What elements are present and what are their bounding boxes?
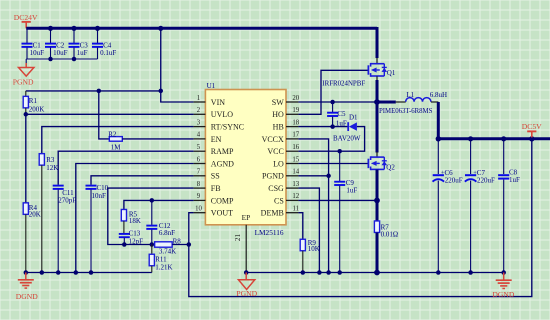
capacitor C6 220uF (433, 139, 463, 273)
wire PGND bus right (244, 270, 506, 276)
wire Q2 source to R7 (376, 170, 379, 221)
svg-text:10K: 10K (308, 245, 320, 253)
port DC5V (522, 122, 542, 137)
svg-text:UVLO: UVLO (211, 110, 233, 119)
svg-text:18K: 18K (129, 217, 141, 225)
svg-text:EN: EN (211, 135, 222, 144)
svg-text:12K: 12K (46, 164, 58, 172)
svg-text:SW: SW (272, 98, 284, 107)
svg-text:VIN: VIN (211, 98, 225, 107)
wire PGND pin (298, 175, 328, 177)
capacitor C8 1uF (498, 139, 520, 273)
wire HO to Q1 gate (298, 70, 368, 114)
svg-text:3: 3 (197, 119, 201, 126)
svg-text:21: 21 (233, 234, 242, 242)
svg-text:D1: D1 (349, 113, 358, 121)
port DC24V (14, 13, 38, 28)
wire D1 anode to VCC (298, 127, 364, 154)
svg-text:R2: R2 (108, 131, 117, 139)
svg-text:R1: R1 (29, 97, 38, 105)
node FB net junctions (122, 242, 154, 247)
pin 5 RAMP (194, 144, 234, 156)
svg-text:5: 5 (197, 144, 201, 151)
pin 20 SW (272, 95, 300, 107)
resistor R9 10K (300, 239, 320, 272)
svg-text:12: 12 (292, 193, 299, 200)
pin 1 VIN (194, 95, 226, 107)
wire CS (298, 198, 380, 204)
capacitor C2 (45, 28, 68, 59)
svg-text:SS: SS (211, 172, 220, 181)
svg-text:HO: HO (272, 110, 284, 119)
pin 19 HO (272, 107, 300, 119)
capacitor C1 (22, 28, 45, 59)
svg-text:Q1: Q1 (387, 69, 396, 77)
wire SS (91, 176, 194, 185)
wire EN pullup (99, 91, 109, 139)
svg-text:1M: 1M (111, 144, 122, 152)
pin 12 CS (274, 193, 300, 205)
svg-text:CSG: CSG (268, 184, 284, 193)
pin 15 LO (273, 156, 300, 168)
svg-text:220uF: 220uF (477, 177, 495, 185)
svg-text:VCC: VCC (267, 147, 283, 156)
svg-text:PGND: PGND (236, 289, 257, 298)
wire 5V output rail (436, 102, 550, 142)
pin 9 COMP (194, 193, 234, 205)
wire R1-R4 link (25, 114, 27, 203)
pin 3 RT/SYNC (194, 119, 245, 131)
svg-text:12pF: 12pF (129, 237, 144, 245)
svg-text:17: 17 (292, 132, 299, 139)
wire DEMB (298, 213, 302, 240)
wire RAMP (58, 151, 193, 185)
capacitor C12 6.8nF (146, 200, 175, 244)
capacitor C11 270pF (53, 185, 76, 273)
svg-text:10nF: 10nF (92, 192, 107, 200)
svg-text:18: 18 (292, 119, 299, 126)
svg-text:R3: R3 (46, 156, 55, 164)
svg-text:U1: U1 (207, 82, 216, 90)
capacitor C5 1uF (327, 102, 347, 127)
pin 18 HB (273, 119, 300, 131)
node 24V rail junctions (48, 26, 163, 31)
inductor L1 6.8uH (377, 91, 447, 115)
resistor R2 1M (108, 131, 122, 152)
svg-text:AGND: AGND (211, 159, 234, 168)
svg-text:20: 20 (292, 95, 299, 102)
pin 8 FB (194, 181, 221, 193)
wire FB (108, 188, 194, 244)
svg-text:7: 7 (197, 169, 201, 176)
svg-text:R11: R11 (155, 255, 167, 263)
resistor R11 1.21K (149, 245, 172, 273)
capacitor C3 (69, 28, 89, 59)
capacitor C4 (92, 28, 116, 59)
svg-text:PGND: PGND (262, 172, 284, 181)
svg-text:0.01Ω: 0.01Ω (381, 231, 398, 239)
svg-text:19: 19 (292, 107, 299, 114)
svg-text:6: 6 (197, 156, 201, 163)
svg-text:1uF: 1uF (509, 176, 520, 184)
wire AGND (76, 164, 194, 273)
resistor R5 18K (121, 209, 141, 233)
svg-text:200K: 200K (29, 105, 45, 113)
svg-text:COMP: COMP (211, 196, 234, 205)
pin 2 UVLO (194, 107, 234, 119)
pin 17 VCCX (262, 132, 300, 144)
svg-text:9: 9 (197, 193, 201, 200)
wire input cap bottom bus (26, 57, 97, 62)
svg-text:CS: CS (274, 196, 284, 205)
pin 10 VOUT (194, 206, 234, 218)
svg-text:10uF: 10uF (30, 49, 44, 57)
svg-text:0.1uF: 0.1uF (100, 49, 116, 57)
svg-text:6.8nF: 6.8nF (159, 229, 175, 237)
svg-text:LO: LO (273, 159, 284, 168)
svg-text:VOUT: VOUT (211, 209, 233, 218)
ground PGND (EP) (236, 273, 257, 298)
ground DGND (left) (16, 273, 38, 301)
wire VIN branch (159, 28, 194, 102)
svg-text:DC24V: DC24V (14, 13, 38, 22)
svg-text:IRFR024NPBF: IRFR024NPBF (322, 81, 365, 88)
svg-text:1.21K: 1.21K (155, 263, 172, 271)
svg-text:RAMP: RAMP (211, 147, 234, 156)
svg-text:16: 16 (292, 144, 299, 151)
resistor R1 200K (23, 91, 44, 114)
wire R7 to ground (376, 233, 379, 273)
pin 7 SS (194, 169, 220, 181)
wire HB (298, 124, 348, 129)
wire RT/SYNC (42, 127, 194, 154)
wire Q1 source to Q2 drain (376, 76, 378, 157)
svg-text:3.74K: 3.74K (159, 248, 176, 256)
ground PGND (input) (13, 59, 34, 86)
resistor R3 12K (39, 154, 58, 273)
op-amp U1 LM25116 body (205, 82, 286, 237)
diode D1 BAV20W (333, 113, 361, 142)
svg-text:PGND: PGND (13, 77, 34, 86)
svg-text:6.8uH: 6.8uH (430, 91, 447, 99)
capacitor C9 1uF (334, 151, 357, 272)
svg-text:DEMB: DEMB (261, 209, 284, 218)
svg-text:PIME063T-6R8MS: PIME063T-6R8MS (379, 108, 433, 115)
svg-text:2: 2 (197, 107, 201, 114)
svg-text:10uF: 10uF (53, 49, 68, 57)
capacitor C10 10nF (86, 184, 109, 272)
capacitor C13 12pF (119, 229, 143, 245)
pin 21 EP (233, 213, 250, 273)
pin 16 VCC (267, 144, 299, 156)
svg-text:20K: 20K (29, 211, 41, 219)
wire VCCX tie (298, 139, 330, 273)
wire R1 top link (26, 90, 161, 92)
pin 4 EN (194, 132, 222, 144)
svg-text:HB: HB (273, 123, 284, 132)
svg-text:LM25116: LM25116 (255, 228, 284, 237)
wire DGND bus left (24, 270, 152, 275)
resistor R7 0.01ohm (374, 221, 398, 239)
svg-text:1uF: 1uF (346, 187, 357, 195)
svg-text:FB: FB (211, 184, 221, 193)
svg-text:13: 13 (292, 181, 299, 188)
wire EN (122, 138, 193, 140)
pin 14 PGND (262, 169, 300, 181)
svg-text:11: 11 (293, 206, 300, 213)
transistor Q1 IRFR024NPBF (322, 63, 396, 88)
svg-text:DGND: DGND (16, 292, 38, 301)
svg-text:BAV20W: BAV20W (333, 135, 361, 143)
resistor R8 3.74K (155, 237, 182, 255)
capacitor C7 220uF (465, 139, 495, 273)
svg-text:C5: C5 (337, 110, 346, 118)
svg-text:VCCX: VCCX (262, 135, 284, 144)
wire COMP (124, 198, 194, 209)
svg-text:15: 15 (292, 156, 299, 163)
wire VOUT sense (189, 139, 532, 297)
svg-text:10: 10 (195, 206, 202, 213)
svg-text:8: 8 (197, 181, 201, 188)
wire 24V top rail (26, 27, 377, 64)
svg-text:C10: C10 (97, 184, 109, 192)
transistor Q2 (368, 156, 395, 171)
svg-text:EP: EP (242, 213, 251, 222)
svg-text:DC5V: DC5V (522, 122, 542, 131)
wire UVLO (24, 112, 194, 117)
svg-text:14: 14 (292, 169, 299, 176)
pin 11 DEMB (261, 206, 299, 218)
svg-text:1uF: 1uF (77, 49, 88, 57)
svg-text:4: 4 (197, 132, 201, 139)
ground DGND (right) (492, 273, 514, 299)
pin 13 CSG (268, 181, 300, 193)
resistor R4 20K (23, 203, 41, 273)
svg-text:Q2: Q2 (386, 163, 395, 171)
pin 6 AGND (194, 156, 235, 168)
svg-text:1: 1 (197, 95, 200, 102)
wire R8 to VOUT sense (172, 242, 191, 247)
svg-text:270pF: 270pF (58, 196, 76, 204)
wire LO to Q2 gate (298, 163, 368, 165)
svg-text:RT/SYNC: RT/SYNC (211, 123, 244, 132)
svg-text:220uF: 220uF (445, 177, 463, 185)
wire SW node (298, 99, 380, 105)
svg-text:L1: L1 (406, 91, 414, 99)
svg-text:C13: C13 (129, 229, 141, 237)
wire CSG (298, 188, 319, 272)
svg-text:DGND: DGND (492, 290, 514, 299)
